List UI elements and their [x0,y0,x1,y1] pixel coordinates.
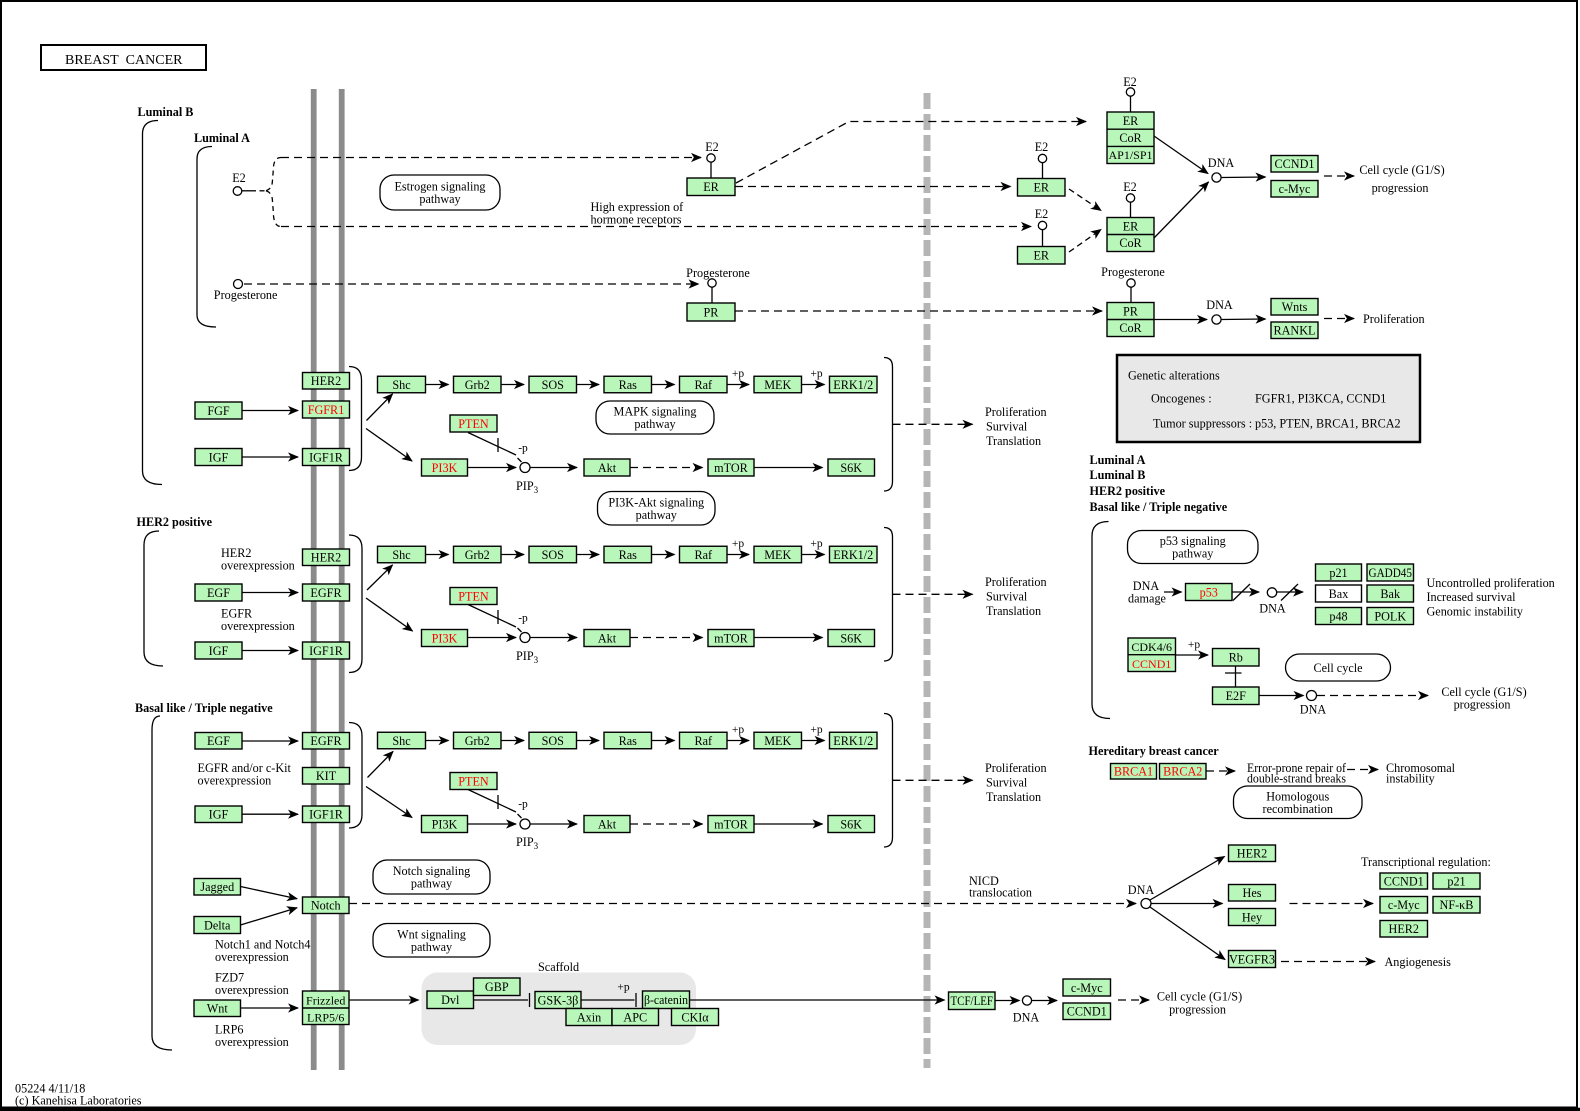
svg-text:IGF: IGF [209,450,229,464]
svg-text:Axin: Axin [577,1010,601,1024]
gene box RANKL [1271,322,1318,339]
svg-text:IGF1R: IGF1R [309,450,344,464]
gene box p48 [1316,608,1362,625]
wire PR/CoR to DNA node [1154,319,1207,321]
svg-text:c-Myc: c-Myc [1279,182,1311,196]
svg-text:+p: +p [810,724,822,736]
wire DNA to HER2 (Notch target) [1150,857,1225,901]
svg-text:Grb2: Grb2 [465,548,490,562]
svg-text:Jagged: Jagged [200,880,234,894]
svg-text:EGFR: EGFR [310,586,342,600]
wire E2 to nuclear ER [1042,163,1044,179]
inhibition PTEN on PIP3 block3 [468,790,516,813]
svg-text:-p: -p [518,443,528,455]
svg-text:DNA: DNA [1300,703,1327,717]
svg-text:E2: E2 [232,171,246,185]
node DNA (TCF target) [1022,996,1031,1005]
svg-text:pathway: pathway [634,417,676,431]
wire dashed to proliferation [1324,318,1354,320]
gene box PI3K (block3) [422,816,468,833]
svg-text:HER2 positive: HER2 positive [137,515,213,529]
svg-text:LRP5/6: LRP5/6 [307,1010,344,1024]
wire IGF to IGF1R block2 [242,650,298,652]
svg-text:ERK1/2: ERK1/2 [833,734,873,748]
svg-text:GADD45: GADD45 [1369,566,1413,580]
wire arrow [652,740,675,742]
wire arrow [426,384,449,386]
gene box ERK1/2 (row y=554.5) [830,546,878,563]
gene box IGF (block2) [195,642,242,659]
gene box GADD45 [1367,564,1414,581]
bracket HER2 positive group [144,531,163,666]
svg-text:CCND1: CCND1 [1384,874,1424,888]
gene box CKIa [672,1009,719,1026]
scaffold background [422,973,697,1046]
gene box EGF (block3) [195,733,242,750]
wire E2F to DNA [1259,695,1304,697]
svg-text:HER2: HER2 [311,374,341,388]
svg-text:Ras: Ras [619,378,638,392]
bracket cascade outputs block2 [884,528,893,662]
svg-text:BRCA1: BRCA1 [1114,765,1153,779]
wire arrow [426,554,449,556]
gene box ER [687,178,735,196]
wire arrow [802,740,825,742]
gene box Ras (row y=740.5) [604,732,652,749]
wire E2 to ER box [710,163,712,179]
gene box HER2 (Notch target 2) [1380,921,1428,938]
svg-text:mTOR: mTOR [714,631,749,645]
wire PIP3 to Akt block3 [530,823,577,825]
title box BREAST CANCER [41,45,206,70]
wire CDK4/6 to Rb [1176,654,1209,656]
svg-text:HER2: HER2 [1389,922,1419,936]
wire beta-catenin to TCF/LEF [690,999,945,1001]
svg-text:ER: ER [1123,219,1139,233]
pathway label box MAPK signaling pathway [596,401,714,434]
wire dashed Akt to mTOR block3 [630,823,703,825]
gene box Hey [1229,909,1276,926]
svg-text:MEK: MEK [764,548,791,562]
svg-text:Wnt: Wnt [207,1002,229,1016]
svg-text:overexpression: overexpression [221,619,295,633]
gene box FGFR1 [303,401,350,418]
svg-text:GSK-3β: GSK-3β [538,993,579,1007]
svg-text:progression: progression [1169,1003,1226,1017]
inhibition PTEN on PIP3 [468,433,516,456]
gene box HER2 (Notch target) [1229,845,1276,862]
gene box BRCA2 [1160,764,1207,780]
svg-text:Oncogenes :: Oncogenes : [1151,392,1212,406]
pathway label box Homologous recombination [1234,786,1363,819]
cell membrane inner leaflet [339,89,345,1070]
pathway label box PI3K-Akt signaling pathway [598,492,716,526]
svg-text:ER: ER [1123,114,1139,128]
svg-text:POLK: POLK [1374,609,1406,623]
svg-text:pathway: pathway [411,877,453,891]
svg-text:ERK1/2: ERK1/2 [833,378,873,392]
wire arrow [652,554,675,556]
gene box Raf (row y=740.5) [680,732,728,749]
gene box CCND1 (Notch target) [1380,873,1428,889]
svg-text:PI3K: PI3K [432,461,458,475]
wire arrow [577,740,599,742]
gene box c-Myc (Wnt target) [1063,979,1111,996]
svg-text:recombination: recombination [1263,802,1333,816]
wire dashed PR to nuclear PR/CoR [735,310,1102,312]
gene box Ras (row y=384.5) [604,376,652,393]
svg-text:FGFR1: FGFR1 [308,403,345,417]
svg-text:Raf: Raf [694,548,713,562]
gene box Wnts [1271,299,1318,316]
node PIP3 [520,463,530,473]
svg-text:mTOR: mTOR [714,461,749,475]
gene box Grb2 (row y=384.5) [454,376,502,393]
gene box S6K (block2) [828,630,875,647]
svg-text:Frizzled: Frizzled [306,993,345,1007]
wire mTOR to S6K block3 [754,823,823,825]
gene box Shc (row y=740.5) [378,732,426,749]
wire dashed E2 to nucleus-bound E2 (top) [281,157,701,159]
svg-text:IGF: IGF [209,644,229,658]
svg-text:NF-κB: NF-κB [1440,898,1474,912]
svg-text:RANKL: RANKL [1274,324,1316,338]
svg-text:ER: ER [1033,181,1049,195]
svg-text:+p: +p [810,368,822,380]
bracket for Luminal A [197,147,216,328]
wire dashed to proliferation block2 [893,593,973,595]
svg-text:Raf: Raf [694,378,713,392]
gene box HER2 (block2) [303,549,350,566]
svg-text:Angiogenesis: Angiogenesis [1385,955,1452,969]
wire receptors to PI3K block2 [366,598,413,631]
pathway label box Estrogen signaling pathway [380,175,500,210]
svg-text:FGF: FGF [207,404,230,418]
wire dashed BRCA to repair [1206,770,1235,772]
wire arrow [502,740,525,742]
svg-text:Akt: Akt [598,817,617,831]
svg-text:p21: p21 [1329,566,1347,580]
gene box Axin [566,1009,612,1026]
svg-text:E2: E2 [1035,207,1049,221]
wire dashed E2F DNA to cell cycle progression [1317,695,1428,697]
pathway label box Wnt signaling pathway [373,924,490,958]
svg-text:Cell cycle (G1/S): Cell cycle (G1/S) [1359,163,1444,177]
wire dashed to cell cycle progression (Wnt) [1118,999,1149,1001]
wire DNA damage to p53 [1164,591,1182,593]
gene box Shc (row y=384.5) [378,376,426,393]
svg-text:HER2: HER2 [1237,847,1267,861]
gene box c-Myc (Notch target) [1380,897,1428,914]
svg-text:APC: APC [623,1010,647,1024]
gene box FGF [195,402,242,419]
svg-text:Luminal A: Luminal A [194,131,250,145]
wire arrow [728,554,750,556]
svg-text:damage: damage [1128,592,1166,606]
svg-text:E2: E2 [705,140,719,154]
svg-text:SOS: SOS [542,734,565,748]
gene box Bax [1316,585,1362,602]
svg-text:Increased survival: Increased survival [1427,590,1517,604]
gene box EGFR (block3) [303,733,350,750]
wire mTOR to S6K block2 [754,637,823,639]
svg-text:double-strand breaks: double-strand breaks [1247,772,1346,786]
wire E2 to ER/CoR [1130,202,1132,217]
svg-text:+p: +p [732,368,744,380]
node DNA (ER target) [1212,173,1221,182]
svg-text:-p: -p [518,799,528,811]
bracket receptor group block1 [349,367,362,471]
wire Wnt to Frizzled [241,1007,299,1009]
svg-text:pathway: pathway [636,508,678,522]
wire Jagged to Notch [241,887,298,899]
inhibition Dvl on GSK-3b [474,999,529,1001]
gene box MEK (row y=384.5) [754,376,802,393]
svg-text:Translation: Translation [986,434,1041,448]
wire receptors to PI3K [366,429,412,462]
gene box PI3K (block1) [422,459,468,476]
node DNA (PR target) [1212,315,1221,324]
wire DNA to Wnts/RANKL [1222,318,1266,321]
bracket basal-like group [152,716,172,1050]
wire arrow [652,384,675,386]
wire dashed ER2 to ER/CoR complex [1069,230,1101,253]
wire E2 to nuclear ER 2 [1042,230,1044,247]
svg-text:AP1/SP1: AP1/SP1 [1108,148,1152,162]
gene box EGF (block2) [195,584,242,601]
svg-text:Transcriptional regulation:: Transcriptional regulation: [1361,855,1491,869]
svg-text:CCND1: CCND1 [1275,157,1315,171]
svg-text:+p: +p [1188,639,1200,651]
svg-text:MEK: MEK [764,734,791,748]
svg-text:CKIα: CKIα [681,1010,709,1024]
svg-text:p48: p48 [1329,609,1347,623]
wire Delta to Notch [241,908,298,925]
svg-text:BRCA2: BRCA2 [1163,765,1202,779]
wire arrow [802,554,825,556]
wire ER/CoR to DNA node [1154,182,1209,238]
gene box PTEN (block2) [450,588,497,605]
svg-text:instability: instability [1386,772,1436,786]
bracket cascade outputs block1 [884,358,893,492]
node DNA (E2F target) [1307,691,1317,701]
svg-text:progression: progression [1454,698,1511,712]
svg-text:Proliferation: Proliferation [985,761,1047,775]
wire dashed E2 lower branch to nuclear E2 [281,226,1031,228]
svg-text:Proliferation: Proliferation [985,405,1047,419]
gene box Hes [1229,885,1276,902]
gene box Bak [1367,585,1414,602]
svg-text:p53, PTEN, BRCA1, BRCA2: p53, PTEN, BRCA1, BRCA2 [1255,417,1401,431]
svg-text:CoR: CoR [1119,321,1142,335]
svg-text:PTEN: PTEN [458,417,489,431]
gene box SOS (row y=554.5) [529,546,577,563]
svg-text:Survival: Survival [986,420,1028,434]
node DNA (NICD target) [1141,899,1151,909]
node E2 above ER [707,154,715,162]
gene box Shc (row y=554.5) [378,546,426,563]
wire PIP3 to Akt block2 [530,637,577,639]
gene box Wnt [194,1000,241,1017]
svg-text:Ras: Ras [619,548,638,562]
svg-text:mTOR: mTOR [714,817,749,831]
gene box SOS (row y=740.5) [529,732,577,749]
svg-text:Survival: Survival [986,590,1028,604]
svg-text:progression: progression [1372,181,1429,195]
svg-text:S6K: S6K [840,631,862,645]
wire dashed Progesterone to receptor [244,283,699,285]
svg-text:β-catenin: β-catenin [644,993,688,1007]
gene box EGFR (block2) [303,584,350,601]
complex box Frizzled/LRP5-6 [303,991,350,1025]
wire dashed to cell cycle progression [1324,175,1354,177]
node Progesterone above PR [708,279,716,287]
svg-text:Survival: Survival [986,776,1028,790]
complex box PR/CoR [1107,303,1154,337]
gene box Akt (block3) [584,816,630,833]
svg-text:Genetic alterations: Genetic alterations [1128,369,1220,383]
svg-text:Hey: Hey [1242,910,1263,924]
svg-text:overexpression: overexpression [215,950,289,964]
gene box Rb [1213,649,1260,667]
node Progesterone above PR/CoR [1127,279,1135,287]
wire dashed Akt to mTOR block2 [630,637,703,639]
wire Frizzled to Dvl [349,999,419,1001]
wire IGF to IGF1R block3 [242,813,298,815]
svg-text:S6K: S6K [840,461,862,475]
svg-text:CDK4/6: CDK4/6 [1131,640,1172,654]
gene box Akt (block2) [584,630,630,647]
svg-text:Dvl: Dvl [441,993,460,1007]
gene box ERK1/2 (row y=384.5) [830,376,878,393]
wire receptors to PI3K block3 [366,787,412,818]
gene box mTOR (block3) [708,816,754,833]
wire arrow [728,740,750,742]
wire EGF to EGFR block3 [242,740,298,742]
svg-text:Shc: Shc [392,548,411,562]
gene box mTOR (block2) [708,630,754,647]
svg-text:Grb2: Grb2 [465,734,490,748]
complex box CDK4/6-CCND1 [1128,638,1176,672]
svg-text:pathway: pathway [419,192,461,206]
svg-text:E2: E2 [1123,180,1137,194]
wire dashed ER to nuclear ER [735,186,1011,188]
svg-text:CCND1: CCND1 [1067,1005,1107,1019]
svg-text:Proliferation: Proliferation [985,575,1047,589]
gene box IGF1R (block3) [303,806,350,823]
wire PI3K to PIP3 [468,467,517,469]
svg-text:PR: PR [704,305,720,319]
pathway label box p53 signaling pathway [1128,531,1259,564]
gene box ER nuclear 2 [1018,247,1066,265]
svg-text:SOS: SOS [542,378,565,392]
gene box ERK1/2 (row y=740.5) [830,732,878,749]
svg-text:Luminal A: Luminal A [1090,453,1146,467]
wire dashed to proliferation block1 [893,423,973,425]
svg-text:c-Myc: c-Myc [1388,898,1420,912]
svg-text:Progesterone: Progesterone [1101,265,1165,279]
svg-text:translocation: translocation [969,886,1032,900]
svg-text:c-Myc: c-Myc [1071,981,1103,995]
svg-text:S6K: S6K [840,817,862,831]
gene box mTOR (block1) [708,459,754,476]
svg-text:pathway: pathway [411,940,453,954]
svg-text:Akt: Akt [598,461,617,475]
svg-text:IGF: IGF [209,808,229,822]
gene box PTEN (block3) [450,773,497,790]
svg-text:EGF: EGF [207,586,230,600]
svg-text:PR: PR [1123,304,1139,318]
svg-text:+p: +p [810,538,822,550]
bracket cascade outputs block3 [884,714,893,848]
complex box ER/CoR [1107,218,1154,252]
wire complex to DNA node [1154,136,1208,174]
gene box Dvl [427,991,474,1009]
svg-text:p53: p53 [1200,585,1218,599]
wire p53 to DNA (broken) [1232,591,1259,593]
gene box p21 (p53 target) [1316,564,1362,581]
node E2 above nuclear ER [1038,154,1046,162]
svg-text:+p: +p [732,538,744,550]
gene box MEK (row y=554.5) [754,546,802,563]
svg-text:EGF: EGF [207,734,230,748]
gene box IGF1R (block2) [303,642,350,659]
svg-text:ER: ER [1033,249,1049,263]
gene box GBP [474,978,521,996]
bracket receptor group block3 [349,723,362,829]
svg-text:MEK: MEK [764,378,791,392]
svg-text:Cell cycle (G1/S): Cell cycle (G1/S) [1157,990,1242,1004]
svg-text:Bak: Bak [1380,587,1401,601]
gene box HER2 (block1) [303,373,350,390]
svg-text:SOS: SOS [542,548,565,562]
gene box NF-kB [1433,897,1480,914]
gene box Ras (row y=554.5) [604,546,652,563]
inhibition Rb on E2F [1235,666,1237,687]
svg-text:EGFR: EGFR [310,734,342,748]
wire arrow [426,740,449,742]
wire mTOR to S6K [754,467,823,469]
svg-text:Hereditary breast cancer: Hereditary breast cancer [1089,744,1220,758]
gene box BRCA1 [1111,764,1157,780]
svg-text:Rb: Rb [1229,651,1243,665]
svg-text:DNA: DNA [1013,1011,1040,1025]
svg-text:overexpression: overexpression [215,1035,289,1049]
gene box Grb2 (row y=740.5) [454,732,502,749]
svg-text:Uncontrolled proliferation: Uncontrolled proliferation [1427,576,1555,590]
svg-text:Scaffold: Scaffold [538,960,579,974]
wire dashed ER1 to ER/CoR complex [1069,189,1101,211]
svg-text:FGFR1, PI3KCA, CCND1: FGFR1, PI3KCA, CCND1 [1255,392,1386,406]
svg-text:Progesterone: Progesterone [214,288,278,302]
gene box IGF (block1) [195,449,242,466]
svg-text:Basal like / Triple negative: Basal like / Triple negative [135,701,273,715]
svg-text:DNA: DNA [1208,156,1235,170]
inhibition PTEN on PIP3 block2 [468,605,516,628]
svg-text:Delta: Delta [204,918,231,932]
gene box SOS (row y=384.5) [529,376,577,393]
gene box ER nuclear 1 [1018,179,1066,197]
wire DNA to p53 targets (broken) [1277,591,1303,593]
gene box VEGFR3 [1229,951,1276,968]
svg-text:hormone receptors: hormone receptors [591,213,682,227]
node DNA (p53 target) [1267,588,1276,597]
connector E2 to membrane brace [242,190,256,192]
gene box Raf (row y=384.5) [680,376,728,393]
gene box PR [687,303,735,321]
genetic alterations legend box [1117,355,1420,442]
svg-text:Shc: Shc [392,734,411,748]
